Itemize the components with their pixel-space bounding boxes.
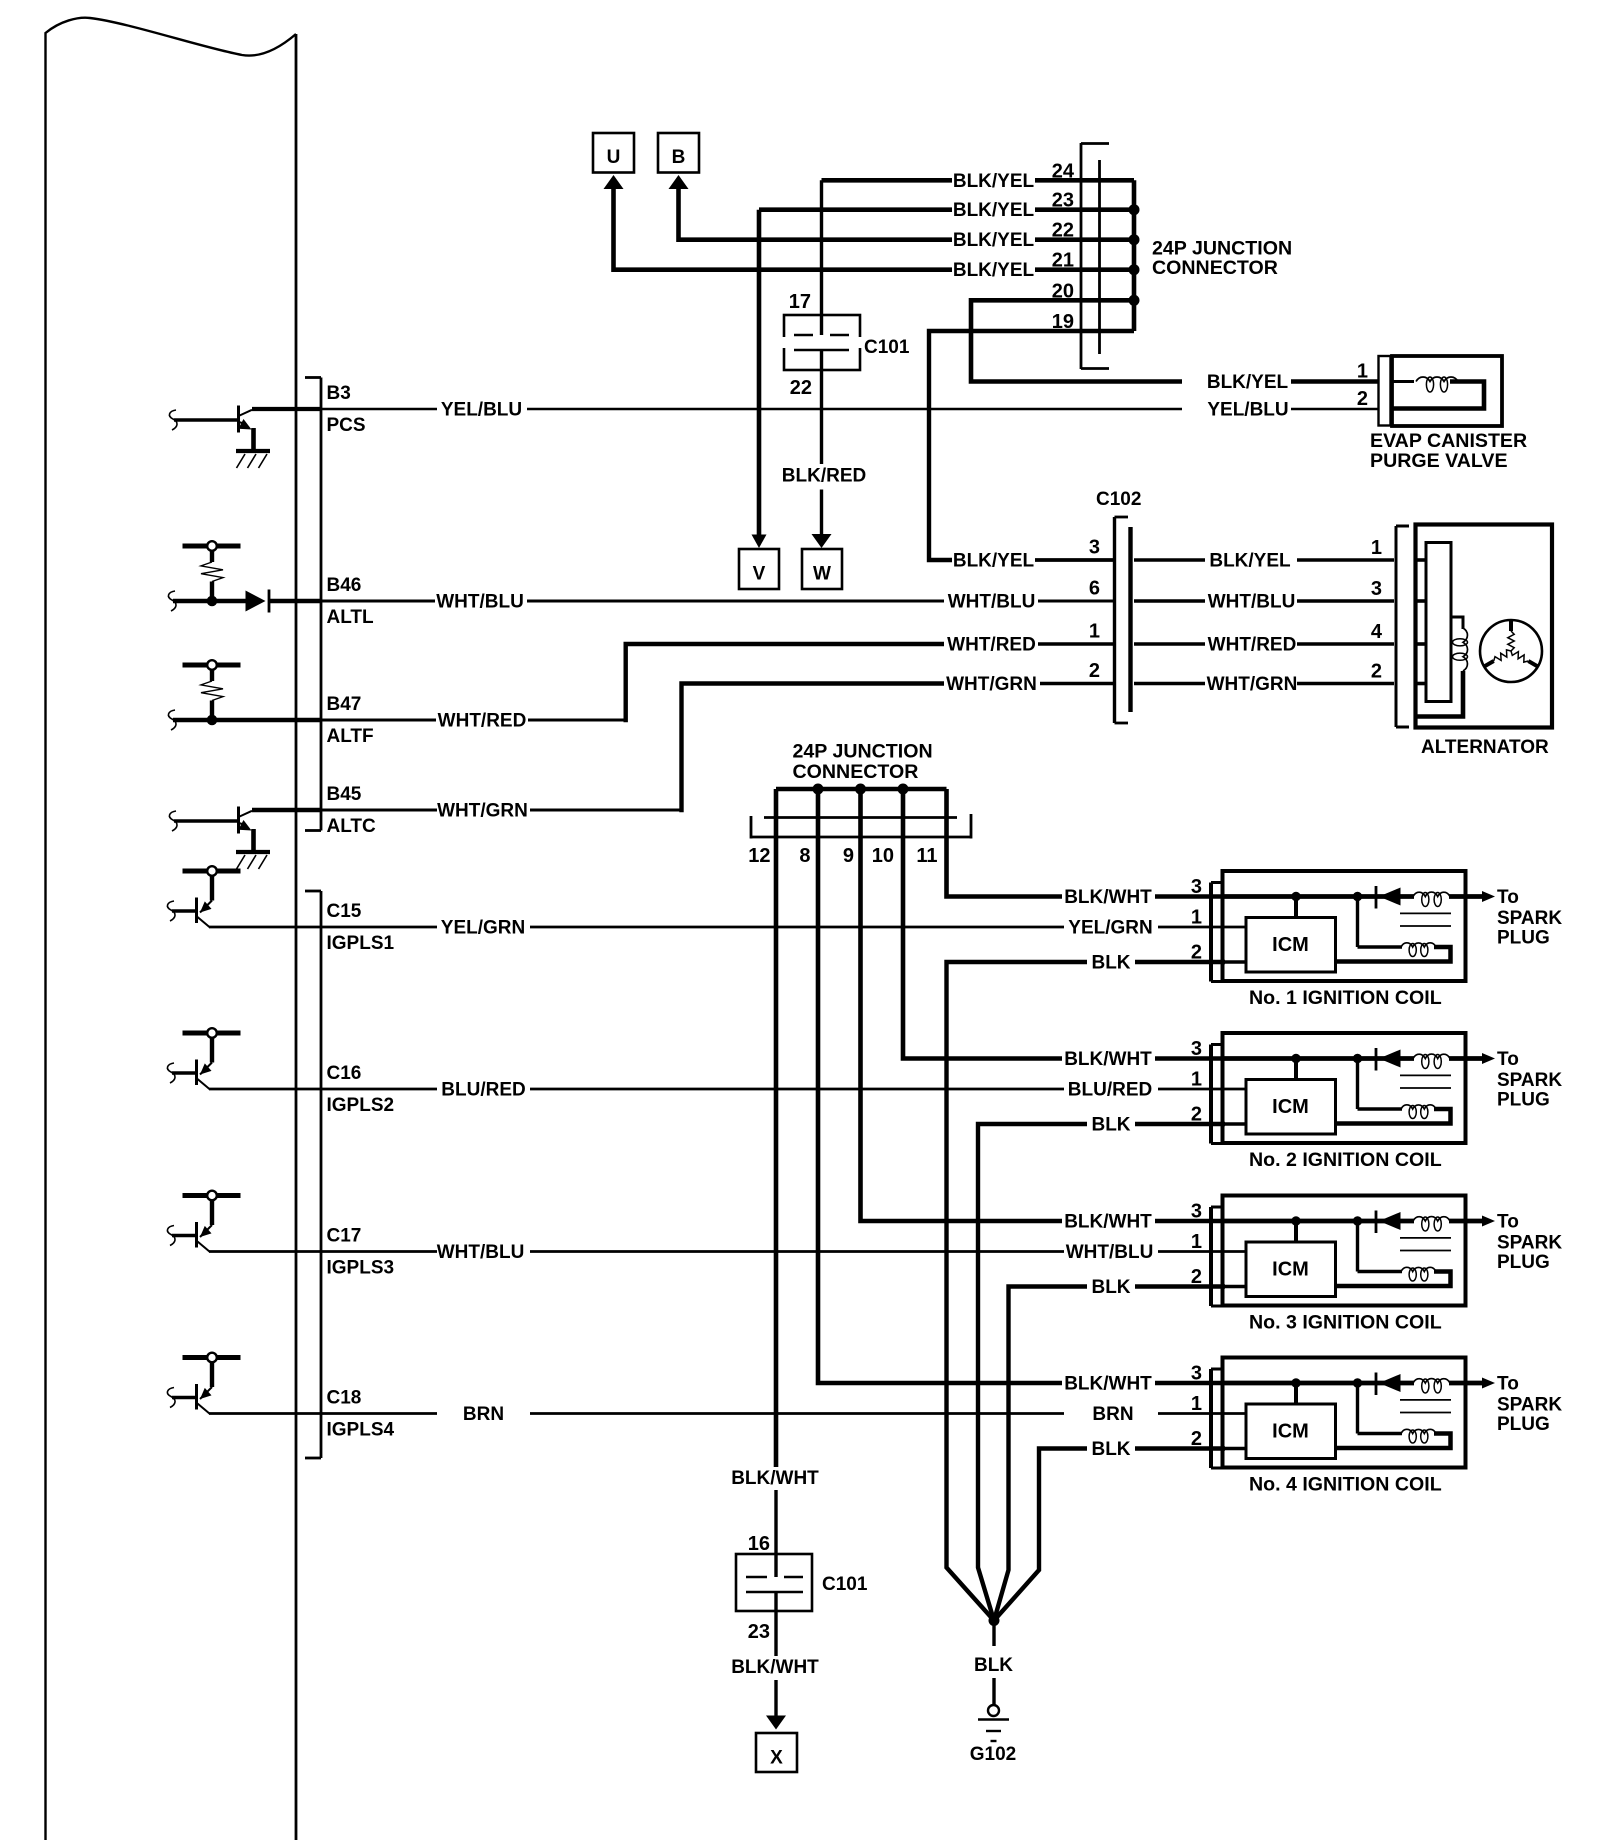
svg-text:No. 4 IGNITION COIL: No. 4 IGNITION COIL [1249,1474,1442,1496]
svg-text:V: V [753,564,766,585]
pin 2 (alternator) [1371,661,1382,683]
pin 8 (middle junction connector) [799,845,810,867]
wire B45 ALTC WHT/GRN to C102 pin 2 [252,674,1116,822]
svg-text:16: 16 [748,1533,770,1555]
diode D1 (ALTL) [246,590,270,613]
terminal box X [756,1733,797,1772]
svg-text:C101: C101 [822,1574,868,1595]
wire junction pin 10 BLK/WHT to No.2 ignition coil pin 3 [903,789,1222,1070]
resistor R1 (ALTL) (internal pull-up) [183,541,241,606]
svg-text:BLK/YEL: BLK/YEL [953,171,1035,192]
svg-text:IGPLS2: IGPLS2 [327,1095,395,1116]
svg-text:BLK/YEL: BLK/YEL [953,200,1035,221]
svg-text:WHT/GRN: WHT/GRN [946,674,1037,695]
svg-text:22: 22 [1052,220,1074,242]
ignition coil No.3 assembly [1191,1196,1563,1307]
svg-text:G102: G102 [970,1744,1016,1765]
connector C101 (pins 17/22) [784,291,910,399]
ignition coil No.1 assembly [1191,871,1563,982]
svg-text:21: 21 [1052,250,1074,272]
terminal box B (to page B) [658,133,952,240]
ECM connector bracket (B pins) [305,378,321,831]
wire WHT/BLU C102 to alternator pin 3 [1134,592,1394,613]
svg-text:WHT/BLU: WHT/BLU [1066,1242,1154,1263]
svg-text:B45: B45 [327,784,362,805]
svg-text:BLK/YEL: BLK/YEL [953,260,1035,281]
svg-text:U: U [607,147,621,168]
svg-text:B46: B46 [327,575,362,596]
svg-text:C15: C15 [327,901,362,922]
svg-text:CONNECTOR: CONNECTOR [793,761,919,783]
wire WHT/RED C102 to alternator pin 4 [1134,635,1394,656]
wire BLK No.2 ignition coil pin 2 to G102 [978,1115,1225,1621]
svg-text:1: 1 [1089,621,1100,643]
svg-text:BLK: BLK [974,1655,1013,1676]
transistor Q1 (B3 PCS) (output driver) [169,406,253,452]
transistor Q3 (C15) (ignition pulse driver) [167,866,240,927]
pin 4 (alternator) [1371,621,1383,643]
wire BLK/YEL junction pin 21 (to U) [953,260,1100,281]
wire B47 ALTF WHT/RED to C102 pin 1 [168,635,1115,732]
wire C17 IGPLS3 WHT/BLU to No.3 ignition coil pin 1 [209,1242,1246,1263]
pin 6 (C102 left) [1089,578,1100,600]
svg-text:YEL/GRN: YEL/GRN [441,918,525,939]
svg-text:BLU/RED: BLU/RED [441,1080,525,1101]
svg-text:B3: B3 [327,383,351,404]
ECM body with torn edge [46,18,297,1840]
wire BLK No.4 ignition coil pin 2 to G102 [994,1439,1225,1621]
node: BLK splice to G102 [974,1616,1013,1706]
wire BLK/RED through C101 17/22 to terminal W [782,180,866,548]
svg-text:ALTL: ALTL [327,607,375,628]
svg-text:WHT/GRN: WHT/GRN [437,801,528,822]
svg-text:2: 2 [1371,661,1382,683]
svg-text:3: 3 [1089,537,1100,559]
svg-text:BLU/RED: BLU/RED [1068,1080,1152,1101]
svg-text:No. 2 IGNITION COIL: No. 2 IGNITION COIL [1249,1149,1442,1171]
terminal box W [802,549,842,589]
ignition coil No.4 assembly [1191,1358,1563,1469]
wire BLK No.3 ignition coil pin 2 to G102 [994,1277,1225,1621]
pin 24 (24P junction connector) [1052,160,1075,182]
svg-text:10: 10 [872,845,894,867]
svg-text:23: 23 [748,1621,770,1643]
pin C18 IGPLS4 label [327,1388,395,1441]
svg-text:WHT/BLU: WHT/BLU [436,592,524,613]
svg-text:BLK/WHT: BLK/WHT [731,1468,819,1489]
alternator label [1421,737,1549,758]
wire C15 IGPLS1 YEL/GRN to No.1 ignition coil pin 1 [209,918,1246,939]
svg-text:BLK: BLK [1091,953,1130,974]
wire to terminal V (BLK/YEL drop) [752,210,767,548]
svg-text:B47: B47 [327,694,362,715]
svg-text:BLK: BLK [1091,1439,1130,1460]
svg-text:23: 23 [1052,190,1074,212]
ignition coil No.3 label [1249,1312,1442,1334]
pin B46 ALTL label [327,575,375,628]
svg-text:ALTERNATOR: ALTERNATOR [1421,737,1549,758]
svg-text:WHT/RED: WHT/RED [1208,635,1297,656]
connector C101 (pins 16/23) [736,1533,868,1643]
svg-text:12: 12 [748,845,770,867]
alternator [1396,525,1552,728]
pin B3 PCS label [327,383,366,436]
svg-text:BLK/WHT: BLK/WHT [1064,1374,1152,1395]
svg-text:YEL/GRN: YEL/GRN [1068,918,1152,939]
svg-text:2: 2 [1089,660,1100,682]
terminal box U (to page U) [593,133,952,270]
wire BLK/YEL junction pin 20 to EVAP valve pin 1 [971,300,1378,393]
svg-text:ALTC: ALTC [327,816,377,837]
ECM connector bracket (C pins) [305,891,321,1458]
svg-text:2: 2 [1357,388,1368,410]
wire B3 PCS YEL/BLU to EVAP valve pin 2 [252,400,1378,421]
svg-text:ALTF: ALTF [327,726,374,747]
pin 9 (middle junction connector) [843,845,854,867]
svg-text:No. 3 IGNITION COIL: No. 3 IGNITION COIL [1249,1312,1442,1334]
wire B46 ALTL WHT/BLU to C102 pin 6 [168,591,1115,613]
svg-text:IGPLS4: IGPLS4 [327,1420,395,1441]
wire BLK/YEL junction pin 24 (to C101 17) [822,171,1100,192]
transistor Q5 (C17) (ignition pulse driver) [167,1191,240,1252]
svg-text:EVAP CANISTER: EVAP CANISTER [1370,430,1527,452]
pin 22 (24P junction connector) [1052,220,1074,242]
24P junction connector (middle) [751,741,971,839]
svg-text:WHT/RED: WHT/RED [947,635,1036,656]
pin 20 (24P junction connector) [1052,280,1074,302]
wire junction pin 11 BLK/WHT to No.1 ignition coil pin 3 [947,789,1223,908]
wire junction pin 9 BLK/WHT to No.3 ignition coil pin 3 [861,789,1223,1233]
ignition coil No.1 label [1249,987,1442,1009]
svg-text:C18: C18 [327,1388,362,1409]
svg-text:C17: C17 [327,1226,362,1247]
pin C15 IGPLS1 label [327,901,395,954]
transistor Q2 (B45 ALTC) (output driver) [169,807,253,853]
svg-text:YEL/BLU: YEL/BLU [1207,400,1288,421]
svg-text:BLK/WHT: BLK/WHT [1064,887,1152,908]
ground (Q1 (B3 PCS) emitter) [236,451,270,468]
svg-text:No. 1 IGNITION COIL: No. 1 IGNITION COIL [1249,987,1442,1009]
svg-text:PURGE VALVE: PURGE VALVE [1370,450,1508,472]
pin C17 IGPLS3 label [327,1226,395,1279]
svg-text:3: 3 [1371,578,1382,600]
svg-text:11: 11 [916,845,937,867]
svg-text:BRN: BRN [1092,1404,1133,1425]
pin 12 (middle junction connector) [748,845,770,867]
svg-text:C102: C102 [1096,489,1141,510]
pin 23 (24P junction connector) [1052,190,1074,212]
wire BLK/YEL junction pin 19 to C102 pin 3 [929,331,1116,572]
wire junction pin 8 BLK/WHT to No.4 ignition coil pin 3 [818,789,1222,1395]
pin 2 (C102 left) [1089,660,1100,682]
svg-text:BLK/YEL: BLK/YEL [953,230,1035,251]
svg-text:BLK: BLK [1091,1277,1130,1298]
svg-text:PCS: PCS [327,415,366,436]
pin 1 (alternator) [1371,537,1382,559]
svg-text:X: X [770,1748,783,1769]
wire BLK No.1 ignition coil pin 2 to G102 [947,953,1226,1621]
EVAP canister purge valve [1370,356,1527,472]
svg-text:22: 22 [790,377,812,399]
pin 3 (C102 left) [1089,537,1100,559]
24P junction connector (top) [1081,143,1292,369]
svg-text:4: 4 [1371,621,1383,643]
svg-text:C101: C101 [864,337,910,358]
svg-text:IGPLS1: IGPLS1 [327,933,395,954]
svg-text:BLK/WHT: BLK/WHT [1064,1212,1152,1233]
terminal box V [739,549,779,589]
wire BLK/YEL C102 to alternator pin 1 [1134,551,1394,572]
svg-text:C16: C16 [327,1063,362,1084]
ground G102 [970,1705,1016,1765]
pin 11 (middle junction connector) [916,845,937,867]
svg-text:BRN: BRN [463,1404,504,1425]
wire BLK/YEL junction pin 22 (to B) [953,230,1100,251]
svg-text:17: 17 [789,291,811,313]
wire BLK/WHT C101 23 to terminal X [731,1611,819,1730]
svg-text:YEL/BLU: YEL/BLU [441,400,522,421]
ignition coil No.2 label [1249,1149,1442,1171]
ignition coil No.2 assembly [1191,1033,1563,1144]
pin C16 IGPLS2 label [327,1063,395,1116]
wire WHT/GRN C102 to alternator pin 2 [1134,674,1394,695]
svg-text:BLK/RED: BLK/RED [782,466,866,487]
svg-text:WHT/GRN: WHT/GRN [1207,674,1298,695]
svg-text:WHT/BLU: WHT/BLU [437,1242,525,1263]
svg-text:BLK/YEL: BLK/YEL [953,551,1035,572]
pin B45 ALTC label [327,784,377,837]
svg-text:W: W [813,564,831,585]
svg-text:B: B [672,147,686,168]
svg-text:IGPLS3: IGPLS3 [327,1258,395,1279]
pin 1 (EVAP valve) [1357,361,1368,383]
pin 1 (C102 left) [1089,621,1100,643]
pin 10 (middle junction connector) [872,845,894,867]
pin 2 (EVAP valve) [1357,388,1368,410]
wire BLK/YEL junction pin 23 (to V) [759,200,1100,221]
ground (Q2 (B45 ALTC) emitter) [236,852,270,869]
svg-text:WHT/BLU: WHT/BLU [1208,592,1296,613]
svg-text:CONNECTOR: CONNECTOR [1152,257,1278,279]
transistor Q6 (C18) (ignition pulse driver) [167,1353,240,1414]
pin 3 (alternator) [1371,578,1382,600]
svg-text:9: 9 [843,845,854,867]
ignition coil No.4 label [1249,1474,1442,1496]
wire C16 IGPLS2 BLU/RED to No.2 ignition coil pin 1 [209,1080,1246,1101]
svg-text:BLK/WHT: BLK/WHT [731,1657,819,1678]
svg-text:BLK: BLK [1091,1115,1130,1136]
svg-text:24P JUNCTION: 24P JUNCTION [793,741,933,763]
svg-text:1: 1 [1371,537,1382,559]
wire C18 IGPLS4 BRN to No.4 ignition coil pin 1 [209,1404,1246,1425]
svg-text:BLK/YEL: BLK/YEL [1209,551,1291,572]
svg-text:1: 1 [1357,361,1368,383]
svg-text:6: 6 [1089,578,1100,600]
wire junction pin 12 BLK/WHT drop to C101 16 [731,789,819,1554]
connector C102 [1096,489,1141,723]
svg-text:24: 24 [1052,160,1075,182]
svg-text:8: 8 [799,845,810,867]
svg-text:BLK/YEL: BLK/YEL [1207,372,1289,393]
pin B47 ALTF label [327,694,374,747]
pin 21 (24P junction connector) [1052,250,1074,272]
svg-text:WHT/RED: WHT/RED [438,711,527,732]
resistor R2 (ALTF) (internal pull-up) [183,660,241,725]
pin 19 (24P junction connector) [1052,311,1074,333]
svg-text:24P JUNCTION: 24P JUNCTION [1152,238,1292,260]
svg-text:WHT/BLU: WHT/BLU [948,592,1036,613]
svg-text:BLK/WHT: BLK/WHT [1064,1049,1152,1070]
alternator stator (3-phase windings) [1480,620,1542,682]
transistor Q4 (C16) (ignition pulse driver) [167,1028,240,1089]
